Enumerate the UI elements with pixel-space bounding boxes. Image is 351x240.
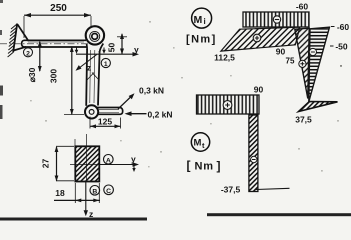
svg-text:-37,5: -37,5 <box>221 185 241 195</box>
svg-text:0,2 kN: 0,2 kN <box>148 110 173 120</box>
y axis (section) <box>99 164 136 166</box>
vertical member (1) <box>86 49 99 106</box>
svg-text:A: A <box>106 157 111 164</box>
node 1 circle <box>101 58 110 67</box>
Mt vertical strip <box>249 115 258 192</box>
svg-text:1: 1 <box>104 61 108 68</box>
svg-text:27: 27 <box>41 159 51 169</box>
load 0.3 kN arrow <box>118 95 133 109</box>
svg-text:18: 18 <box>55 188 65 198</box>
bottom scan rule right <box>207 213 351 216</box>
svg-text:y: y <box>134 45 139 55</box>
wall bracket <box>14 25 29 51</box>
svg-text:-60: -60 <box>296 2 309 12</box>
Mi vertical positive triangle <box>295 28 309 98</box>
section vertical centerline <box>85 134 87 182</box>
dimension 250 <box>24 15 91 38</box>
svg-text:[Nm]: [Nm] <box>186 34 217 46</box>
wall line <box>13 24 17 53</box>
small tick arrow under section y label <box>133 166 135 171</box>
minus symbol (Mi vertical triangle) <box>309 48 316 55</box>
left edge scan marks <box>0 86 3 96</box>
svg-text:-60: -60 <box>337 22 350 32</box>
bottom lug <box>85 105 98 118</box>
minus circle <box>273 16 280 23</box>
svg-text:250: 250 <box>50 3 67 14</box>
y axis (top) <box>76 53 136 55</box>
scan speckles <box>0 0 342 172</box>
svg-text:75: 75 <box>286 57 295 66</box>
load 0.2 kN arrow <box>128 113 147 115</box>
wall hatching <box>8 24 17 57</box>
svg-text:37,5: 37,5 <box>295 115 312 125</box>
dimension 50 <box>121 34 123 54</box>
node B circle <box>90 186 100 196</box>
svg-text:Nm: Nm <box>195 161 214 173</box>
centerline of horizontal member <box>0 43 90 45</box>
svg-text:112,5: 112,5 <box>214 53 235 63</box>
shaft taper marks <box>87 73 99 81</box>
svg-text:C: C <box>106 188 111 195</box>
Mi top bar (negative) <box>243 12 309 27</box>
svg-text:125: 125 <box>98 117 112 127</box>
svg-text:[: [ <box>187 159 191 173</box>
svg-text:300: 300 <box>49 69 59 83</box>
leader tick -60 <box>331 26 335 28</box>
leader tick -50 <box>330 45 334 47</box>
Mi positive band <box>221 27 300 51</box>
node 2 circle <box>24 48 33 57</box>
section rectangle <box>75 146 99 181</box>
Mi label circle <box>192 8 212 28</box>
section horizontal centerline <box>70 164 103 166</box>
Mt label circle <box>191 133 209 151</box>
plus circle <box>253 34 261 42</box>
bottom arm (member 3) <box>97 108 121 115</box>
eye lug at joint 1 <box>86 26 104 44</box>
dimension 18 <box>75 183 99 203</box>
Mt baseline <box>256 188 290 189</box>
z axis (section) <box>85 182 87 213</box>
plus symbol (Mi vertical triangle) <box>299 60 306 67</box>
svg-text:]: ] <box>217 159 221 173</box>
horizontal member (2) bar <box>24 40 87 47</box>
plus symbol (Mt bar) <box>223 101 232 110</box>
svg-text:90: 90 <box>254 85 264 95</box>
dia 30 dimension <box>39 42 41 72</box>
Mi vertical negative triangle <box>309 27 330 102</box>
dimension 300 <box>71 47 73 114</box>
svg-text:0,3 kN: 0,3 kN <box>139 86 164 96</box>
svg-text:2: 2 <box>26 50 30 57</box>
svg-text:M: M <box>194 138 202 149</box>
svg-text:90: 90 <box>276 47 286 57</box>
svg-text:y: y <box>131 154 136 164</box>
node A circle <box>104 155 114 165</box>
bottom scan rule left <box>0 218 147 221</box>
dimension 27 <box>56 147 58 181</box>
dimension 125 <box>90 117 121 129</box>
svg-text:z: z <box>87 63 91 73</box>
svg-text:-50: -50 <box>335 42 348 52</box>
svg-text:B: B <box>92 188 97 195</box>
small tick arrows on y axis <box>76 48 78 53</box>
svg-text:50: 50 <box>107 43 117 53</box>
svg-text:M: M <box>194 14 203 26</box>
minus symbol (Mt strip) <box>251 156 257 162</box>
z axis (top) <box>79 55 97 69</box>
Mi bottom sliver triangle <box>299 102 338 112</box>
svg-text:i: i <box>204 17 206 26</box>
node C circle <box>104 185 114 195</box>
svg-text:⌀30: ⌀30 <box>27 67 37 82</box>
Mt horizontal bar <box>197 95 260 114</box>
